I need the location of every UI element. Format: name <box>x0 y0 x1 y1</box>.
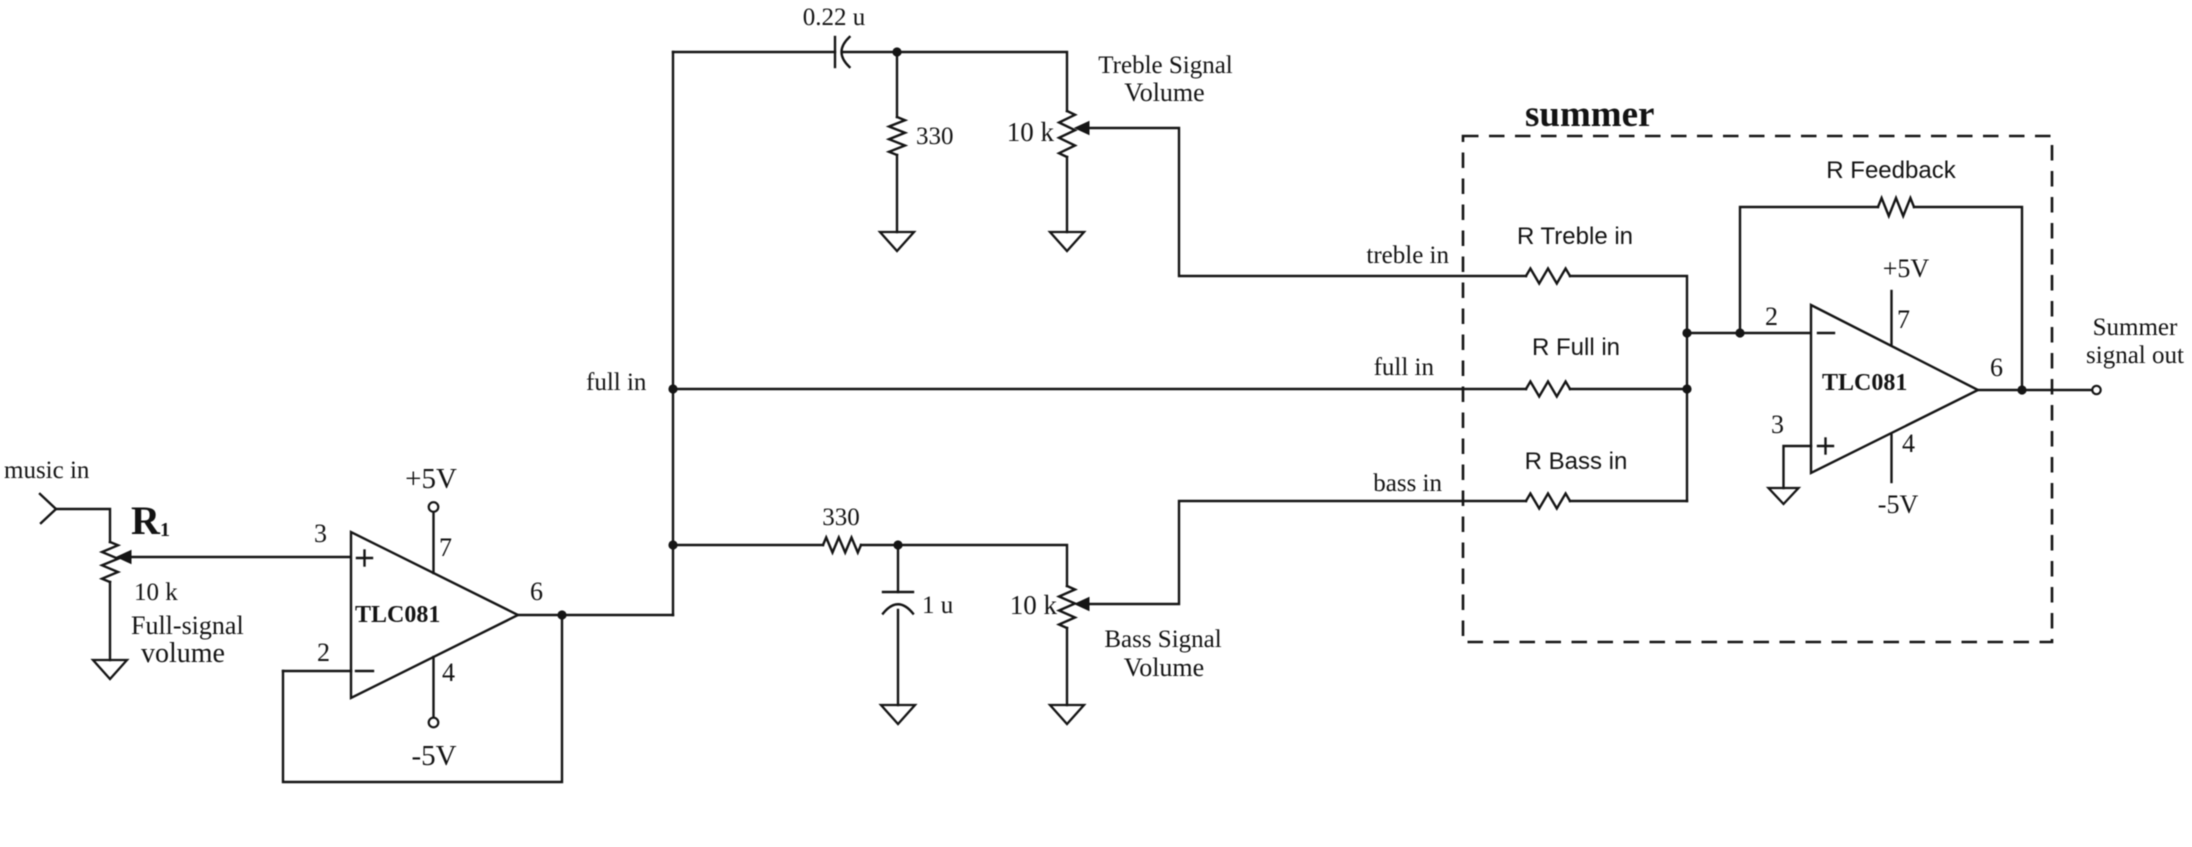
wire jack to R1 top <box>56 509 110 542</box>
svg-text:Summer: Summer <box>2093 314 2178 341</box>
junction treble RC node <box>892 47 901 56</box>
capacitor C1 0.22u <box>834 37 836 67</box>
resistor R Bass in <box>1526 494 1570 509</box>
svg-text:330: 330 <box>916 123 954 150</box>
P2 wiper arrow <box>1075 122 1089 135</box>
junction summing node top <box>1682 328 1691 337</box>
capacitor C2 1u <box>883 591 913 593</box>
svg-text:R: R <box>131 498 161 543</box>
svg-text:-5V: -5V <box>1878 490 1919 519</box>
wire bass node to R3 <box>673 544 823 546</box>
wire U1 pin 7 to +5V <box>432 513 434 573</box>
junction U1 output node <box>557 610 566 619</box>
potentiometer R1 10k <box>102 542 118 582</box>
resistor R Full in <box>1526 382 1570 397</box>
svg-text:Treble Signal: Treble Signal <box>1098 52 1233 79</box>
wire U2 pin 4 to -5V <box>1890 435 1892 482</box>
junction summing node mid <box>1682 384 1691 393</box>
svg-text:4: 4 <box>442 658 455 687</box>
svg-text:R Treble in: R Treble in <box>1517 223 1633 250</box>
potentiometer P3 10k bass <box>1059 586 1075 628</box>
svg-text:signal out: signal out <box>2086 342 2184 369</box>
wire feedback up <box>1740 207 1878 333</box>
wire P3 to ground <box>1066 628 1068 705</box>
svg-text:volume: volume <box>141 638 225 669</box>
wire bus top to capacitor C1 <box>673 51 835 53</box>
U1 plus input symbol <box>357 557 372 559</box>
ground C2 <box>881 705 915 724</box>
wire R Treble out <box>1570 276 1687 501</box>
-5V terminal circle (U1) <box>429 718 439 728</box>
svg-text:full in: full in <box>1374 354 1435 381</box>
ground P3 <box>1050 705 1084 724</box>
wire C2 to ground <box>897 610 899 705</box>
resistor R3 330 (bass) <box>823 538 861 553</box>
summer dashed box <box>1463 136 2052 642</box>
wire R2 to ground <box>896 155 898 232</box>
wire U2 output <box>1978 389 2092 391</box>
svg-text:Full-signal: Full-signal <box>131 611 244 640</box>
wire feedback to output <box>1914 207 2022 390</box>
wire C1 to treble pot top <box>843 52 1067 111</box>
svg-text:2: 2 <box>1765 302 1778 331</box>
svg-text:6: 6 <box>530 577 543 606</box>
U2 minus input symbol <box>1818 332 1834 334</box>
svg-text:+5V: +5V <box>405 463 457 495</box>
svg-text:330: 330 <box>822 504 860 531</box>
svg-text:4: 4 <box>1902 429 1915 458</box>
svg-text:3: 3 <box>314 519 327 548</box>
wire R1 bottom to ground <box>109 582 111 660</box>
svg-text:7: 7 <box>439 533 452 562</box>
svg-text:Volume: Volume <box>1124 653 1204 682</box>
svg-text:summer: summer <box>1525 94 1654 135</box>
wire U1 feedback loop <box>283 615 562 782</box>
svg-text:R Feedback: R Feedback <box>1826 157 1956 184</box>
U1 minus input symbol <box>356 670 373 672</box>
wire bass wiper run <box>1089 501 1526 604</box>
wire R Bass out <box>1570 500 1687 502</box>
resistor R Feedback <box>1878 198 1914 216</box>
wire summing node to U2 pin 2 <box>1687 332 1811 334</box>
wire P2 to ground <box>1066 157 1068 232</box>
svg-text:2: 2 <box>317 638 330 667</box>
svg-text:10 k: 10 k <box>1007 117 1055 147</box>
terminal summer signal out <box>2092 386 2100 394</box>
svg-text:full in: full in <box>586 369 647 396</box>
potentiometer P2 10k treble <box>1059 111 1075 157</box>
svg-text:6: 6 <box>1990 353 2003 382</box>
ground U2 pin 3 <box>1769 488 1799 504</box>
junction bass RC node <box>893 540 902 549</box>
wire U2 pin 3 to ground <box>1784 446 1812 488</box>
ground R1 <box>93 660 127 679</box>
wire U1 pin 4 to -5V <box>432 657 434 717</box>
svg-text:bass in: bass in <box>1373 470 1442 497</box>
ground R2 <box>880 232 914 251</box>
node full in junction <box>668 384 677 393</box>
wire full in to R Full in <box>673 388 1526 390</box>
junction feedback tap <box>1735 328 1744 337</box>
svg-text:10 k: 10 k <box>1010 590 1058 620</box>
svg-text:-5V: -5V <box>411 740 456 772</box>
svg-text:3: 3 <box>1771 410 1784 439</box>
svg-text:Bass Signal: Bass Signal <box>1104 626 1221 653</box>
+5V terminal circle (U1) <box>429 502 439 512</box>
resistor R Treble in <box>1526 269 1570 284</box>
wire bass node to C2 <box>897 545 899 592</box>
svg-text:R Full in: R Full in <box>1532 334 1620 361</box>
wire treble wiper run <box>1089 128 1526 276</box>
svg-text:R Bass in: R Bass in <box>1525 448 1628 475</box>
wire R Full out <box>1570 388 1687 390</box>
svg-text:0.22 u: 0.22 u <box>803 4 866 31</box>
wire U1 output <box>518 614 673 616</box>
node bass branch junction <box>668 540 677 549</box>
R1 wiper arrow <box>117 551 131 564</box>
U2 plus input symbol <box>1818 445 1833 447</box>
svg-text:TLC081: TLC081 <box>355 602 440 628</box>
svg-text:1: 1 <box>160 519 170 541</box>
wire R1 wiper to op-amp U1 pin 3 <box>131 556 351 558</box>
op-amp U2 body <box>1811 305 1978 473</box>
P3 wiper arrow <box>1075 598 1089 611</box>
ground P2 <box>1050 232 1084 251</box>
svg-text:Volume: Volume <box>1124 78 1204 107</box>
connector J1 music in jack <box>40 494 56 523</box>
wire full-signal bus vertical <box>672 52 674 615</box>
op-amp U1 body <box>351 532 518 698</box>
wire U1 pin 2 <box>283 670 351 672</box>
svg-text:music in: music in <box>4 457 90 484</box>
svg-text:10 k: 10 k <box>134 579 178 606</box>
wire R3 to bass pot <box>861 545 1067 586</box>
wire U2 pin 7 to +5V <box>1890 291 1892 344</box>
svg-text:treble in: treble in <box>1366 242 1449 269</box>
svg-text:+5V: +5V <box>1883 254 1930 283</box>
svg-text:TLC081: TLC081 <box>1822 370 1907 396</box>
junction U2 output node <box>2017 385 2026 394</box>
svg-text:1 u: 1 u <box>922 592 954 619</box>
svg-text:7: 7 <box>1897 305 1910 334</box>
wire treble node to R2 <box>896 52 898 117</box>
resistor R2 330 (treble) <box>889 117 905 155</box>
